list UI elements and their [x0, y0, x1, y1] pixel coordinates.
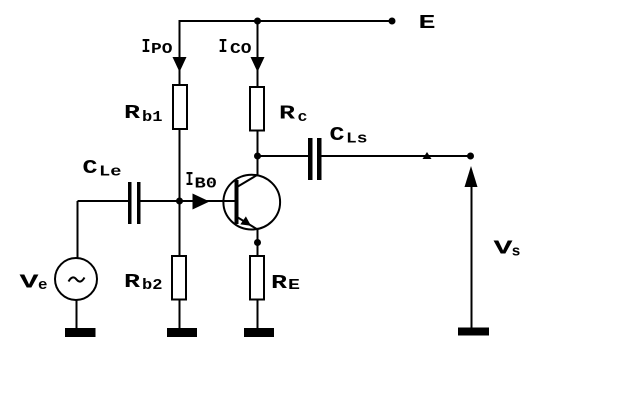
svg-text:Le: Le: [99, 163, 122, 180]
svg-text:b2: b2: [142, 277, 163, 294]
svg-text:C: C: [330, 124, 345, 146]
svg-text:B0: B0: [195, 175, 218, 192]
svg-text:I: I: [219, 36, 228, 58]
svg-text:C: C: [83, 157, 98, 179]
svg-text:e: e: [38, 277, 48, 294]
svg-text:c: c: [298, 109, 308, 126]
svg-text:CO: CO: [230, 41, 252, 58]
svg-text:R: R: [124, 102, 141, 124]
svg-text:R: R: [279, 103, 296, 125]
svg-text:V: V: [20, 272, 40, 294]
svg-text:E: E: [419, 12, 436, 34]
svg-text:I: I: [142, 36, 151, 58]
svg-text:s: s: [512, 244, 521, 261]
svg-text:b1: b1: [142, 109, 163, 126]
svg-text:V: V: [494, 238, 514, 260]
svg-text:PO: PO: [151, 41, 173, 58]
svg-text:R: R: [124, 271, 141, 293]
svg-text:R: R: [271, 272, 288, 294]
svg-text:I: I: [186, 169, 194, 191]
svg-text:E: E: [288, 277, 300, 294]
svg-text:Ls: Ls: [346, 130, 368, 147]
